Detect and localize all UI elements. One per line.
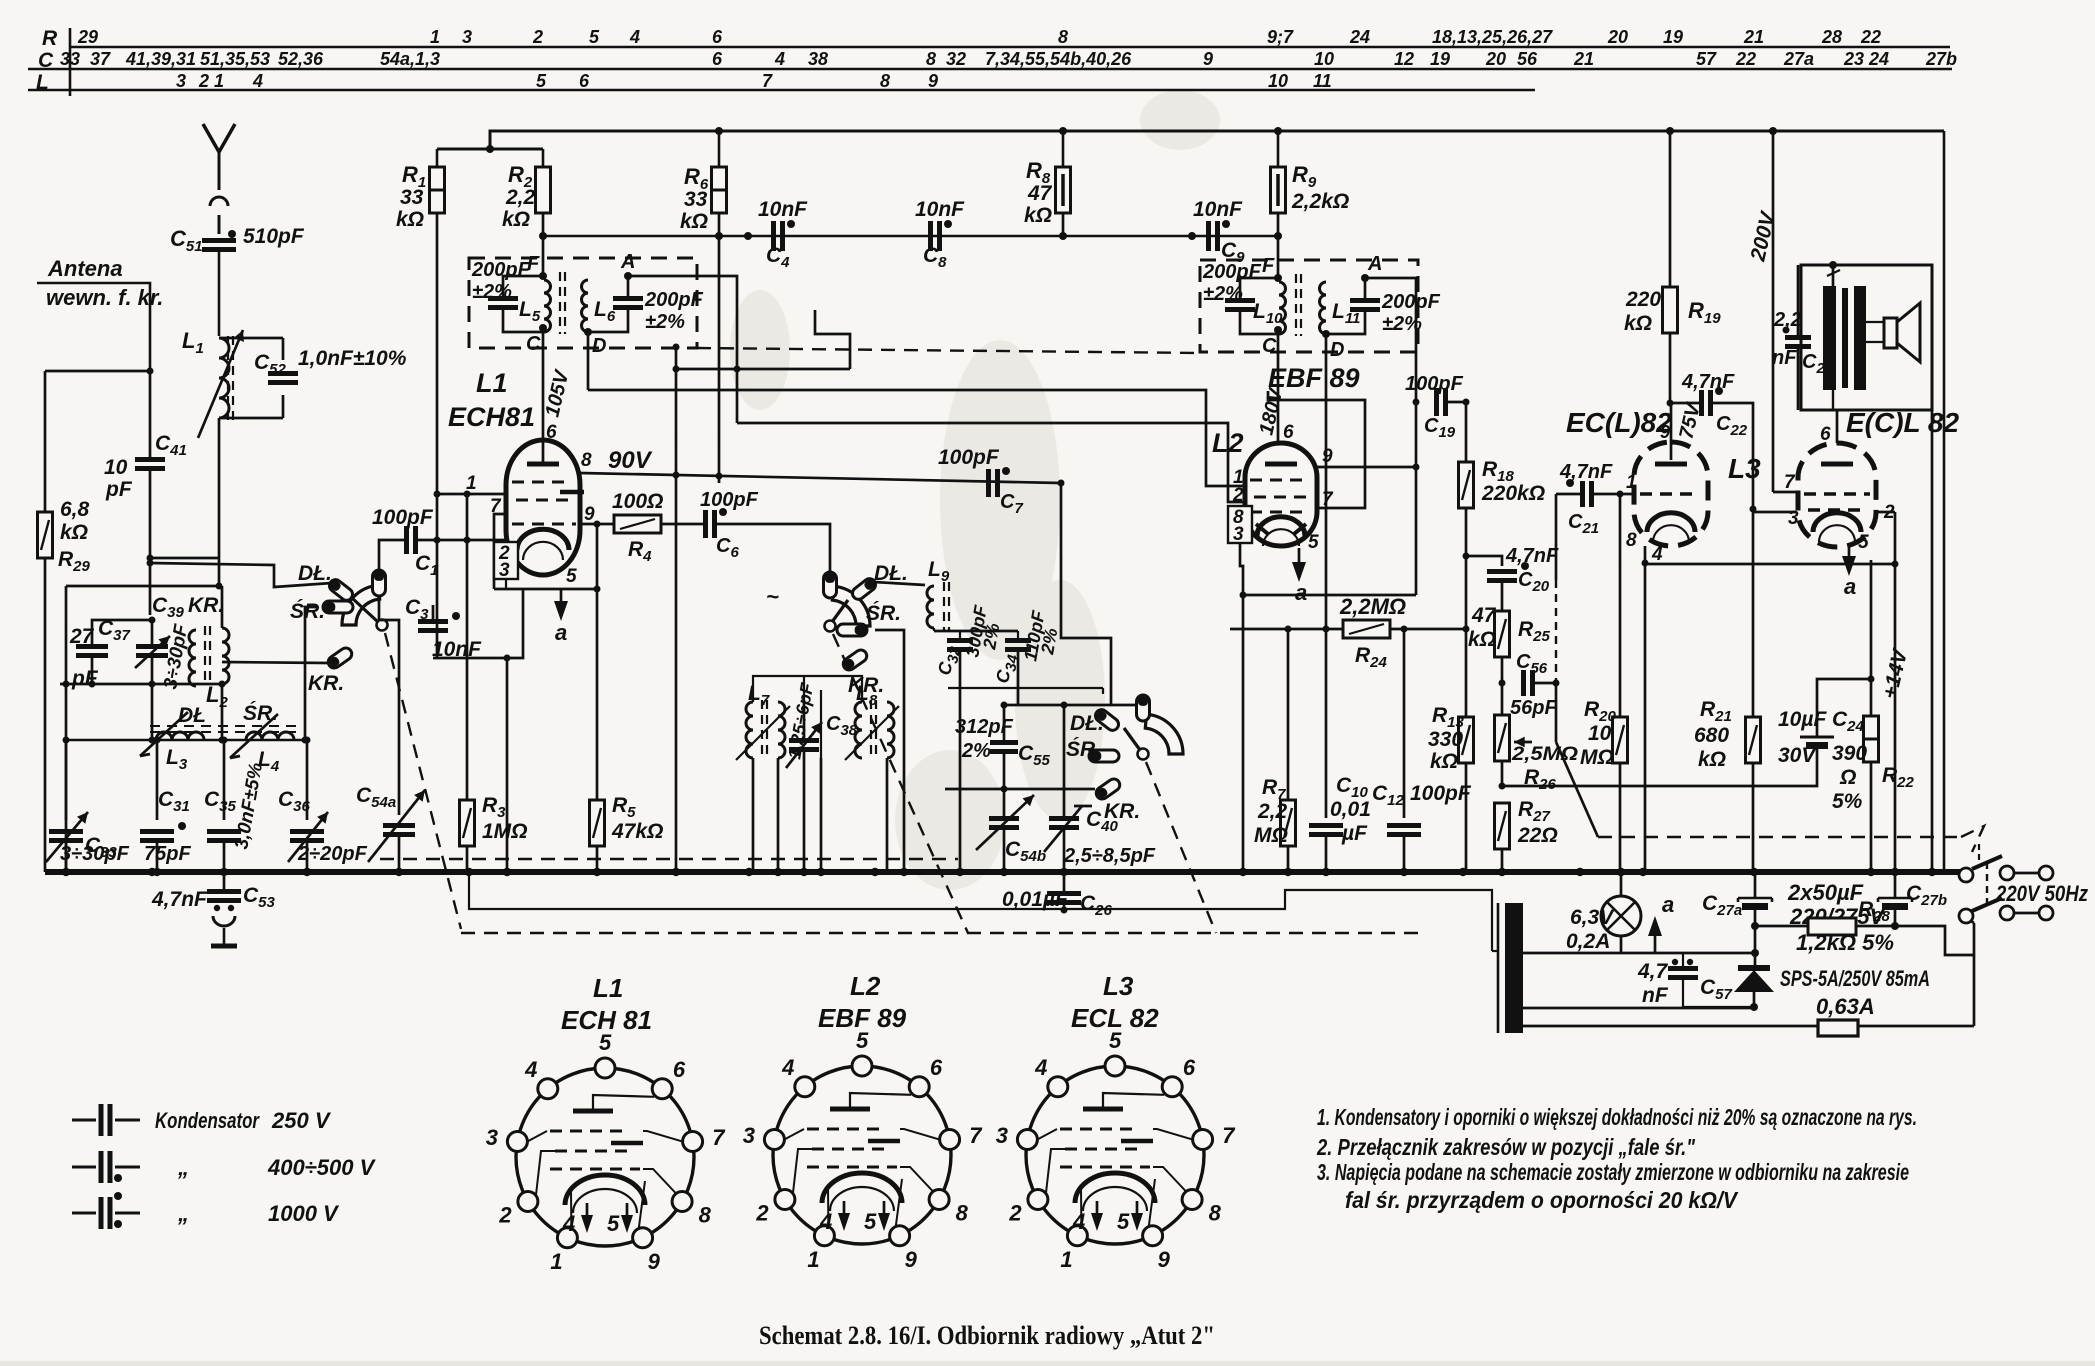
svg-text:9: 9 <box>584 504 595 525</box>
svg-text:µF: µF <box>1341 822 1368 845</box>
wire: pin9 wire <box>580 523 614 526</box>
svg-text:2,2: 2,2 <box>1257 800 1288 823</box>
wire: C39 column <box>151 620 154 645</box>
svg-text:3: 3 <box>1788 508 1799 529</box>
svg-text:4,7nF: 4,7nF <box>1559 461 1613 483</box>
node junction C56 <box>1499 680 1506 687</box>
svg-text:6: 6 <box>546 422 557 443</box>
resistor R3 <box>460 800 475 846</box>
node bus junction <box>1867 868 1875 876</box>
wire: D2 column <box>1325 334 1328 629</box>
svg-text:L1: L1 <box>182 328 204 357</box>
output transformer primary bars <box>1823 286 1836 390</box>
wire: mast column down <box>218 418 221 558</box>
inductor L9 <box>927 586 934 628</box>
svg-text:5: 5 <box>1308 532 1319 553</box>
inductor L10 <box>1279 282 1286 334</box>
wire: pin9 column <box>596 524 599 589</box>
svg-text:680: 680 <box>1694 724 1729 747</box>
resistor R5 <box>590 800 605 846</box>
node junction L2-684 <box>219 681 226 688</box>
node junction C39-684 <box>149 681 156 688</box>
svg-text:8: 8 <box>1209 1201 1222 1226</box>
legend capacitor 250V <box>72 1119 96 1122</box>
node junction rail-200V <box>1769 127 1777 135</box>
svg-text:100pF: 100pF <box>1410 782 1472 805</box>
capacitor C26 <box>1047 891 1081 896</box>
svg-text:R5: R5 <box>612 794 636 821</box>
svg-text:C: C <box>1262 335 1277 357</box>
svg-text:R13: R13 <box>1432 704 1465 731</box>
wire: rectifier dc line <box>1523 1007 1754 1010</box>
arrow a heater <box>1654 932 1657 953</box>
antenna mast <box>203 124 235 152</box>
wire: C22 line <box>1670 402 1700 405</box>
IF transformer II box <box>1200 260 1418 352</box>
svg-text:kΩ: kΩ <box>680 210 708 233</box>
svg-text:5: 5 <box>589 27 600 47</box>
svg-text:C54a: C54a <box>356 784 396 811</box>
svg-text:2,2: 2,2 <box>505 186 536 209</box>
legend capacitor 400-500V <box>72 1166 96 1169</box>
wire: 200V column <box>1772 131 1775 492</box>
svg-text:ŚR: ŚR <box>1066 737 1096 761</box>
svg-text:L6: L6 <box>594 298 616 325</box>
wire: antenna input underline <box>37 283 150 371</box>
switch S2 SR contact <box>837 624 867 636</box>
IF transformer I box <box>469 258 697 348</box>
svg-text:F: F <box>527 253 540 275</box>
svg-text:C19: C19 <box>1424 415 1456 441</box>
svg-text:EBF 89: EBF 89 <box>818 1003 907 1033</box>
tube ECH81 pin23 bracket <box>494 542 518 579</box>
switch S3 KR contact <box>1094 777 1122 802</box>
svg-text:2%: 2% <box>961 740 991 762</box>
wire: pin6 anode column <box>1836 410 1839 443</box>
svg-text:C35: C35 <box>204 788 237 815</box>
wire: C24 top link <box>1817 679 1871 737</box>
svg-text:2,2MΩ: 2,2MΩ <box>1339 594 1406 619</box>
svg-text:37: 37 <box>90 49 111 69</box>
inductor L3 <box>156 732 204 740</box>
node junction R6-90V <box>716 473 723 480</box>
svg-text:kΩ: kΩ <box>502 208 530 231</box>
svg-text:10µF: 10µF <box>1778 708 1827 731</box>
wire: C41col to mast <box>150 557 219 560</box>
wire: R26 bottom node <box>1501 761 1504 786</box>
node bus junction <box>800 868 808 876</box>
switch S2 crescent <box>832 586 870 626</box>
svg-text:22: 22 <box>1735 49 1756 69</box>
resistor R27 <box>1495 803 1510 849</box>
svg-text:C53: C53 <box>243 884 276 911</box>
svg-text:5: 5 <box>1858 532 1869 553</box>
wire: stub 850 <box>815 310 850 369</box>
svg-text:23 24: 23 24 <box>1843 49 1889 69</box>
resistor R4 horizontal <box>614 515 661 533</box>
wire: R19 column <box>1669 131 1672 287</box>
wire: dashed mech line below bus <box>461 932 1420 934</box>
wire: C36 wire <box>306 740 309 820</box>
capacitor C51 <box>202 238 236 243</box>
wire: x507 column <box>506 658 509 872</box>
tube ECL82a cathode <box>1647 513 1695 532</box>
capacitor C24 electrolytic <box>1800 736 1834 739</box>
wire: C19 right <box>1446 401 1466 404</box>
wire: R21 to bus <box>1752 763 1755 872</box>
svg-text:4: 4 <box>1034 1055 1047 1080</box>
svg-text:4,7: 4,7 <box>1637 960 1669 983</box>
wire: EBF pin9 wire <box>1317 466 1416 469</box>
svg-text:54a,1,3: 54a,1,3 <box>380 49 440 69</box>
node junction x1416-C19 <box>1413 399 1420 406</box>
svg-text:200V: 200V <box>1746 208 1780 264</box>
wire: 1243 column to bus <box>1242 595 1245 872</box>
switch S1 KR contact <box>326 646 354 671</box>
wire: S3 upper feed 688 <box>947 676 949 688</box>
fuse 0.63A <box>1818 1020 1858 1036</box>
inductor L4 <box>246 732 294 740</box>
inductor L2 antenna coil <box>189 630 196 686</box>
node junction mid-C9-R9 <box>1274 232 1282 240</box>
wire: chassis ground bus <box>45 869 1962 875</box>
wire: anode lead from box <box>1832 390 1834 410</box>
wire: C7 down to S3 <box>1061 483 1111 706</box>
node junction 676-369 <box>673 366 680 373</box>
svg-text:C36: C36 <box>278 788 311 815</box>
svg-text:21: 21 <box>1743 27 1764 47</box>
capacitor C54b variable <box>989 816 1019 821</box>
svg-text:200pF: 200pF <box>471 259 531 281</box>
svg-text:9: 9 <box>1660 422 1670 442</box>
switch S1 pole pill <box>373 570 386 596</box>
node junction rail-R19 <box>1666 127 1674 135</box>
node junction mast-586 <box>216 583 223 590</box>
svg-text:R9: R9 <box>1292 162 1317 191</box>
svg-text:57: 57 <box>1696 49 1717 69</box>
tube socket L2 EBF89 <box>773 1066 951 1244</box>
svg-text:6: 6 <box>1283 422 1294 443</box>
wire: osc grid jog <box>433 589 523 658</box>
svg-text:ŚR.: ŚR. <box>243 701 278 725</box>
wire: R26 column <box>1501 683 1504 715</box>
node bus junction <box>774 868 782 876</box>
tube ECL82 pentode body <box>1798 443 1876 547</box>
svg-text:2: 2 <box>755 1201 769 1226</box>
node junction C26 bottom <box>1061 907 1068 914</box>
node junction R1-C1 <box>434 537 441 544</box>
node bus junction <box>1617 868 1625 876</box>
node junction C27a-R28 <box>1751 922 1759 930</box>
svg-text:30V: 30V <box>1778 744 1817 767</box>
wire: pin7 path <box>494 514 506 589</box>
wire: C20 to R25 <box>1501 581 1504 611</box>
svg-text:D: D <box>592 335 606 357</box>
svg-text:Kondensator: Kondensator <box>155 1108 260 1133</box>
svg-text:7: 7 <box>969 1123 983 1148</box>
svg-text:22: 22 <box>1860 27 1881 47</box>
svg-text:Ω: Ω <box>1839 766 1856 789</box>
wire: R28 line <box>1755 925 1808 928</box>
svg-text:6: 6 <box>579 71 590 91</box>
wire: pin1 wire <box>437 493 506 496</box>
wire: A to EBF line <box>628 276 737 423</box>
capacitor C27b electrolytic <box>1877 898 1880 902</box>
svg-text:L2: L2 <box>1212 428 1244 458</box>
wire: R20 top tie <box>1620 563 1645 565</box>
node junction 1243-595 <box>1240 592 1247 599</box>
svg-text:a: a <box>1662 892 1674 917</box>
svg-text:L11: L11 <box>1332 300 1360 327</box>
wire: volume wiper link <box>1555 494 1558 580</box>
node junction C35 top <box>221 737 228 744</box>
resistor R1 <box>430 167 445 213</box>
node bus junction <box>1639 868 1647 876</box>
svg-text:4,7nF: 4,7nF <box>1505 545 1559 567</box>
resistor R8 <box>1056 167 1071 213</box>
node bus junction <box>817 868 825 876</box>
node junction R1-pin1 <box>434 491 441 498</box>
svg-text:3÷30pF: 3÷30pF <box>60 843 130 865</box>
svg-text:105V: 105V <box>541 367 573 419</box>
node junction R7 top <box>1285 626 1292 633</box>
inductor L11 <box>1320 282 1327 334</box>
svg-text:5: 5 <box>536 71 547 91</box>
node bus junction <box>871 868 879 876</box>
svg-text:90V: 90V <box>608 447 653 474</box>
svg-text:10nF: 10nF <box>915 198 965 221</box>
node junction mid-C9left <box>1188 232 1196 240</box>
tube ECL82a grid <box>1640 492 1700 496</box>
node bus junction <box>1498 868 1506 876</box>
svg-text:E(C)L 82: E(C)L 82 <box>1846 407 1959 438</box>
svg-text:1: 1 <box>1626 472 1637 493</box>
wire: R21 column <box>1752 509 1755 717</box>
wire: mast to L1 <box>218 250 221 336</box>
node junction 1895-564 <box>1892 561 1899 568</box>
wire: C1 right <box>416 539 506 542</box>
wire: R8 top <box>1062 131 1065 167</box>
node junction 737-369 <box>734 366 741 373</box>
svg-text:2,5÷8,5pF: 2,5÷8,5pF <box>1063 845 1156 867</box>
wire: C34 leg <box>1017 631 1019 640</box>
node junction C55 top <box>1001 702 1008 709</box>
node bus junction <box>1284 868 1292 876</box>
wire: IFT2 cap right legs <box>1364 278 1367 300</box>
svg-text:C10: C10 <box>1336 774 1369 801</box>
svg-text:kΩ: kΩ <box>1698 748 1726 771</box>
svg-text:5: 5 <box>607 1211 620 1236</box>
svg-text:220: 220 <box>1625 288 1661 311</box>
ground symbol C53 <box>213 916 235 926</box>
tube EBF89 anode <box>1265 462 1297 467</box>
inductor L5 <box>544 280 551 332</box>
svg-text:C12: C12 <box>1372 782 1405 809</box>
svg-text:a: a <box>1844 574 1856 599</box>
wire: AGC mid rail <box>543 235 1278 238</box>
resistor R9 <box>1271 167 1286 213</box>
svg-text:56: 56 <box>1517 49 1538 69</box>
svg-text:R20: R20 <box>1584 698 1617 725</box>
wire: S1 mechanical dashed link <box>385 633 461 929</box>
svg-text:Antena: Antena <box>47 256 123 281</box>
svg-text:MΩ: MΩ <box>1580 746 1614 769</box>
svg-text:4: 4 <box>819 1209 832 1234</box>
svg-text:L7: L7 <box>748 682 770 709</box>
svg-text:2: 2 <box>1008 1201 1022 1226</box>
svg-text:200pF: 200pF <box>1202 261 1262 283</box>
wire: S1 pole to C1 line <box>379 540 404 570</box>
capacitor C19 <box>1434 388 1439 416</box>
capacitor C4 <box>771 221 776 251</box>
svg-text:4: 4 <box>774 49 785 69</box>
wire: C54b legs <box>1003 789 1006 818</box>
svg-text:kΩ: kΩ <box>60 521 88 544</box>
tube ECH81 cathode <box>517 529 569 550</box>
wire: C3 top <box>432 605 435 621</box>
potentiometer R26 <box>1495 715 1510 761</box>
wire: S2 mechanical dashed link <box>833 634 968 933</box>
inductor L8 <box>855 702 862 758</box>
svg-text:9: 9 <box>1203 49 1213 69</box>
svg-text:4,7nF: 4,7nF <box>151 888 208 911</box>
node bus junction <box>1060 868 1068 876</box>
wire: R18 to R13 <box>1465 508 1468 717</box>
wire: 30V feedback line <box>1502 748 1817 786</box>
svg-text:wewn. f. kr.: wewn. f. kr. <box>46 285 163 310</box>
wire: R20 to bus <box>1619 763 1622 872</box>
capacitor C10 <box>1309 823 1343 828</box>
tube ECL82b grids <box>1804 492 1870 496</box>
svg-text:fal śr. przyrządem o oporności: fal śr. przyrządem o oporności 20 kΩ/V <box>1345 1187 1739 1213</box>
wire: pin8 90V line <box>580 473 1060 483</box>
wire: R6 column <box>718 131 721 167</box>
wire: L7 legs <box>752 758 754 872</box>
wire: pin2 wire <box>1876 511 1895 514</box>
node junction rail-R6 <box>715 127 723 135</box>
svg-text:24: 24 <box>1349 27 1370 47</box>
node junction R26-R27 <box>1499 783 1506 790</box>
svg-text:250 V: 250 V <box>271 1108 332 1133</box>
node bus junction <box>303 868 311 876</box>
wire: R7 to bus <box>1287 846 1290 872</box>
svg-text:100Ω: 100Ω <box>612 490 663 513</box>
node bus junction <box>900 868 908 876</box>
svg-text:4: 4 <box>524 1057 537 1082</box>
node junction R2 top <box>486 145 494 153</box>
svg-text:nF: nF <box>1642 984 1669 1007</box>
capacitor C8 <box>928 221 933 251</box>
wire: A1 line <box>737 423 1245 502</box>
svg-text:10: 10 <box>1588 722 1612 745</box>
wire: C56 right <box>1533 682 1556 685</box>
node junction diode out <box>1750 1003 1758 1011</box>
wire: L8 legs <box>820 690 822 702</box>
switch S2 KR contact <box>841 648 869 673</box>
svg-text:2 1: 2 1 <box>198 71 224 91</box>
svg-text:3: 3 <box>176 71 186 91</box>
node junction pin1 ECL82a <box>1617 491 1624 498</box>
resistor R28 horizontal <box>1808 918 1856 935</box>
node bus junction <box>1928 868 1936 876</box>
node junction C56-mech <box>1553 680 1560 687</box>
wire: C10 column <box>1325 629 1328 818</box>
svg-text:DŁ: DŁ <box>178 704 206 727</box>
svg-text:EBF 89: EBF 89 <box>1268 363 1360 393</box>
svg-text:47: 47 <box>1027 182 1053 205</box>
node junction heater-diode <box>1751 949 1759 957</box>
svg-text:28: 28 <box>1821 27 1842 47</box>
svg-text:7: 7 <box>712 1125 726 1150</box>
node junction ant-R29 <box>147 368 154 375</box>
svg-text:L10: L10 <box>1253 300 1283 327</box>
wire: C57 legs <box>1682 953 1684 968</box>
node bus junction <box>1322 868 1330 876</box>
node bus junction <box>956 868 964 876</box>
svg-text:200pF: 200pF <box>1381 291 1441 313</box>
wire: R7 column <box>1287 629 1290 800</box>
capacitor C56 <box>1521 670 1526 696</box>
power transformer core bar <box>1505 903 1523 1033</box>
wire: 1643 column to bus <box>1644 564 1647 872</box>
svg-text:3: 3 <box>996 1123 1008 1148</box>
svg-text:9: 9 <box>1158 1247 1171 1272</box>
svg-text:10nF: 10nF <box>432 638 482 661</box>
capacitor C52 <box>268 371 298 376</box>
node junction S1 top <box>147 560 154 567</box>
svg-text:R19: R19 <box>1688 298 1721 327</box>
svg-text:3: 3 <box>499 560 510 581</box>
svg-text:1: 1 <box>1060 1247 1072 1272</box>
wire: column 676 <box>675 347 678 872</box>
tube ECH81 anode <box>527 462 559 467</box>
svg-text:R24: R24 <box>1355 644 1388 671</box>
wire: L9 legs <box>933 566 935 582</box>
node junction lamp bus <box>1617 868 1625 876</box>
wire: R9 bottom to F2 <box>1277 213 1280 276</box>
svg-text:38: 38 <box>808 49 828 69</box>
wire: C31 wire <box>156 740 159 820</box>
wire: C12 to bus <box>1403 836 1406 872</box>
wire: R29 to bus <box>44 371 47 512</box>
wire: ruler left tick <box>69 28 72 96</box>
svg-text:C41: C41 <box>155 432 187 459</box>
svg-text:4: 4 <box>1072 1209 1085 1234</box>
svg-text:EC(L)82: EC(L)82 <box>1566 407 1672 438</box>
node junction C36 top <box>304 737 311 744</box>
capacitor C36 variable <box>290 829 324 834</box>
svg-text:2: 2 <box>1232 485 1244 506</box>
capacitor IFT2 cap right <box>1350 298 1380 303</box>
wire: C54a to bus <box>398 836 401 872</box>
svg-text:5%: 5% <box>1832 790 1863 813</box>
wire: R2 bottom to F <box>542 213 545 276</box>
node junction 66-684 <box>63 681 70 688</box>
wire: R1 top <box>436 149 439 167</box>
inductor L7 <box>746 702 753 758</box>
node junction C40 top <box>1061 702 1068 709</box>
output transformer box <box>1801 265 1932 410</box>
node junction mid-R8 <box>1059 232 1067 240</box>
svg-text:1: 1 <box>430 27 440 47</box>
wire: R5 to bus <box>596 846 599 872</box>
resistor R25 <box>1495 611 1510 657</box>
wire: mech dashed to mains switch <box>1598 836 1961 838</box>
tube ECL82b anode <box>1821 462 1853 467</box>
wire: R3 column <box>466 540 469 800</box>
svg-text:8: 8 <box>880 71 890 91</box>
wire: C36 to bus <box>306 842 309 872</box>
